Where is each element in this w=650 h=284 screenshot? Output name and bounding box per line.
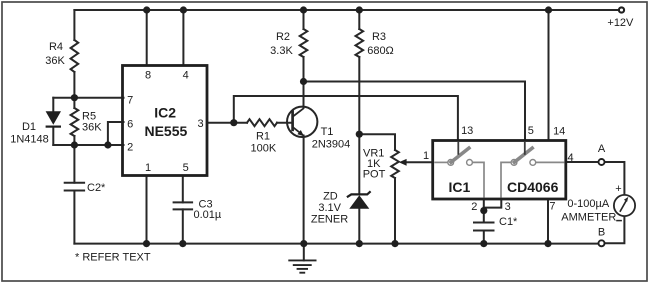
svg-text:3.1V: 3.1V: [318, 202, 341, 214]
ground symbol: [288, 260, 316, 272]
wire IC1 pin3 stub: [484, 199, 502, 208]
svg-text:7: 7: [549, 200, 555, 212]
wire zener to ground rail: [358, 209, 360, 244]
wire top supply rail: [74, 9, 619, 11]
wire ground stub: [303, 244, 305, 261]
svg-text:NE555: NE555: [144, 123, 187, 139]
wire pin6 stub: [108, 122, 124, 145]
terminal A: [599, 159, 605, 165]
wire IC2 pin8: [146, 10, 148, 66]
svg-text:+: +: [615, 183, 621, 195]
wire R5 top: [73, 98, 75, 108]
svg-text:5: 5: [528, 125, 534, 137]
wire R2 bottom to collector node: [303, 57, 305, 82]
node rail C3: [179, 240, 186, 247]
potentiometer VR1 wiper arrow: [399, 159, 407, 166]
wire VR1 wiper to IC1 pin1: [404, 161, 433, 163]
wire IC2 pin4: [182, 10, 184, 66]
svg-text:D1: D1: [22, 121, 36, 133]
node top rail / pin14: [545, 6, 552, 13]
svg-text:B: B: [598, 226, 605, 238]
svg-text:* REFER TEXT: * REFER TEXT: [75, 252, 151, 264]
svg-text:6: 6: [127, 119, 133, 131]
svg-text:R3: R3: [372, 31, 386, 43]
wire IC1 pin2 to C1: [483, 199, 485, 223]
wire pin3 node up and over to IC1 pin13: [234, 96, 458, 141]
wire node to VR1 top: [359, 134, 395, 150]
ammeter M1: [614, 195, 635, 216]
svg-text:ZENER: ZENER: [311, 214, 348, 226]
wire C2 top lead: [73, 145, 75, 183]
wire IC2 pin1: [146, 176, 148, 244]
IC1 box: [433, 141, 566, 200]
svg-text:4: 4: [567, 152, 573, 164]
node top rail / pin8: [143, 6, 150, 13]
IC1 analog switch S1: [434, 147, 484, 198]
svg-text:A: A: [598, 143, 606, 155]
terminal B: [599, 240, 605, 246]
IC1 switch S2 control from pin 5: [524, 142, 526, 155]
svg-text:7: 7: [127, 94, 133, 106]
svg-text:8: 8: [145, 69, 151, 81]
svg-text:2: 2: [127, 142, 133, 154]
wire bottom ground rail: [74, 243, 599, 245]
node top rail / pin4: [180, 6, 187, 13]
wire lower-left node horizontal: [53, 144, 123, 146]
wire C1 bottom lead: [483, 231, 485, 244]
svg-text:36K: 36K: [45, 55, 65, 67]
resistor R1: [247, 119, 277, 126]
svg-text:3.3K: 3.3K: [270, 45, 293, 57]
node pin3 base: [230, 119, 237, 126]
transistor T1: [287, 107, 317, 137]
svg-text:AMMETER: AMMETER: [561, 212, 616, 224]
ammeter minus sign: [616, 220, 622, 222]
svg-text:CD4066: CD4066: [507, 179, 559, 195]
wire collector node to IC1 pin5: [304, 82, 526, 141]
svg-text:3: 3: [197, 118, 203, 130]
zener diode ZD: [347, 191, 371, 209]
node R3 VR1: [356, 131, 363, 138]
node pin6 pin2: [104, 141, 111, 148]
wire C3 bottom lead: [182, 209, 184, 243]
wire IC1 pin14 from rail: [548, 10, 550, 141]
wire IC1 pin7 to rail: [547, 199, 549, 244]
wire D1 branch: [52, 98, 54, 145]
node rail emitter: [300, 240, 307, 247]
IC1 switch S1 control from pin 13: [457, 142, 459, 155]
wire T1 emitter to ground rail: [303, 136, 305, 244]
resistor R2: [300, 29, 308, 57]
svg-text:R4: R4: [49, 41, 63, 53]
node R2 collector: [300, 78, 307, 85]
svg-text:C1*: C1*: [499, 216, 518, 228]
svg-text:3: 3: [505, 201, 511, 213]
svg-text:0-100µA: 0-100µA: [567, 198, 609, 210]
wire IC1 pin4 to terminal A: [566, 161, 599, 163]
node rail pin1: [143, 240, 150, 247]
IC1 analog switch S2: [501, 147, 564, 198]
diode D1: [46, 111, 61, 126]
node top rail / R2: [300, 6, 307, 13]
wire R4 bottom to node: [73, 72, 75, 98]
wire collector lead: [303, 82, 305, 108]
wire R4 branch top: [73, 10, 75, 40]
svg-text:4: 4: [183, 69, 189, 81]
svg-text:R2: R2: [276, 31, 290, 43]
svg-text:T1: T1: [321, 126, 334, 138]
wire R2 top: [303, 10, 305, 29]
svg-text:1: 1: [423, 150, 429, 162]
svg-text:1: 1: [145, 162, 151, 174]
node rail C1: [480, 240, 487, 247]
wire IC2 pin3 output: [207, 122, 247, 124]
svg-text:100K: 100K: [251, 142, 277, 154]
wire R1 to base: [277, 122, 292, 124]
svg-text:0.01µ: 0.01µ: [194, 209, 222, 221]
wire R3 top: [358, 10, 360, 29]
capacitor C3 plates: [174, 202, 193, 209]
svg-text:IC1: IC1: [449, 179, 471, 195]
potentiometer VR1 element: [391, 150, 399, 178]
capacitor C1 plates: [474, 223, 494, 231]
capacitor C2 plates: [65, 183, 84, 191]
wire ammeter to terminal B: [604, 216, 624, 243]
wire R3 node to zener: [358, 134, 360, 193]
svg-text:ZD: ZD: [323, 190, 338, 202]
svg-text:680Ω: 680Ω: [367, 45, 394, 57]
wire IC2 pin5 to C3: [182, 176, 184, 203]
svg-text:R1: R1: [256, 131, 270, 143]
svg-text:2: 2: [471, 201, 477, 213]
node R5 C2: [71, 141, 78, 148]
svg-text:1N4148: 1N4148: [10, 134, 49, 146]
node rail VR1: [391, 240, 398, 247]
svg-text:5: 5: [183, 162, 189, 174]
svg-text:POT: POT: [363, 169, 386, 181]
IC2 box: [123, 66, 208, 176]
svg-text:36K: 36K: [82, 122, 102, 134]
wire VR1 bottom to rail: [394, 178, 396, 244]
wire terminal A to ammeter: [604, 162, 624, 195]
node R4 R5 pin7: [71, 94, 78, 101]
wire pin7 node horizontal: [53, 97, 123, 99]
svg-text:IC2: IC2: [154, 105, 176, 121]
wire C2 bottom lead to rail: [73, 191, 75, 244]
node top rail / R3: [356, 6, 363, 13]
wire R3 bottom: [358, 57, 360, 134]
resistor R4: [71, 40, 79, 72]
terminal +12V: [619, 7, 624, 12]
svg-text:13: 13: [461, 125, 473, 137]
node pin2 pin3 C1: [480, 207, 487, 214]
wire R5 bottom: [73, 136, 75, 145]
svg-text:2N3904: 2N3904: [312, 139, 351, 151]
node rail pin7: [544, 240, 551, 247]
svg-text:+12V: +12V: [607, 17, 634, 29]
resistor R5: [71, 108, 79, 136]
svg-text:14: 14: [553, 125, 565, 137]
svg-text:C2*: C2*: [87, 182, 106, 194]
node rail zener: [356, 240, 363, 247]
resistor R3: [355, 29, 363, 57]
